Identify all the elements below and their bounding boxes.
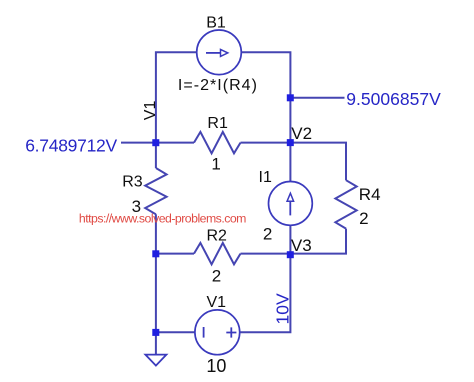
wire R1 right lead [241, 142, 291, 144]
wire left column lower [155, 214, 157, 354]
wire to right voltage annotation [290, 97, 344, 99]
node V1 junction square [152, 139, 159, 146]
wire to left voltage annotation [121, 142, 156, 144]
node R2-left junction square [152, 250, 159, 257]
svg-text:2: 2 [359, 209, 368, 228]
svg-text:I=-2*I(R4): I=-2*I(R4) [178, 77, 257, 94]
wire right column lower with V1 source right lead [240, 225, 291, 332]
svg-text:V2: V2 [291, 124, 312, 143]
svg-text:R3: R3 [122, 173, 143, 190]
dependent source B1 circle [197, 30, 242, 75]
resistor R4 [335, 180, 356, 228]
wire V1 source left lead [156, 331, 195, 333]
wire R2 right lead [241, 253, 291, 255]
svg-text:1: 1 [211, 155, 220, 174]
resistor R1 [194, 132, 241, 153]
node top-right junction square [287, 94, 294, 101]
ground [145, 355, 166, 366]
node V2 junction square [287, 139, 294, 146]
V1 minus sign [203, 327, 205, 338]
current source I1 circle [269, 182, 313, 226]
resistor R3 [145, 168, 166, 214]
wire V2 to R4 top [290, 143, 346, 181]
svg-text:I1: I1 [259, 169, 272, 186]
svg-text:2: 2 [212, 267, 221, 286]
B1 arrow [206, 52, 220, 54]
V1 plus sign [226, 327, 236, 337]
wire R1 left lead [156, 142, 194, 144]
voltage source V1 circle [195, 310, 240, 355]
wire top-right: B1 to right column down to I1 [241, 52, 290, 181]
svg-text:10V: 10V [272, 293, 292, 324]
svg-text:V1: V1 [142, 101, 159, 121]
svg-text:R1: R1 [207, 115, 228, 132]
svg-text:V3: V3 [291, 236, 312, 255]
node V3 junction square [287, 251, 294, 258]
svg-text:B1: B1 [206, 15, 226, 32]
svg-text:9.5006857V: 9.5006857V [346, 89, 441, 109]
I1 arrow [289, 201, 291, 215]
wire R2 left lead [156, 253, 194, 255]
resistor R2 [194, 243, 241, 264]
svg-text:10: 10 [206, 356, 226, 376]
svg-text:V1: V1 [207, 294, 227, 311]
wire top-left corner: V1 column up and over to B1 [156, 52, 197, 168]
wire R4 bottom to V3 [290, 229, 346, 254]
svg-text:R2: R2 [207, 228, 228, 245]
svg-text:2: 2 [263, 224, 272, 243]
svg-text:https://www.solved-problems.co: https://www.solved-problems.com [79, 212, 247, 226]
svg-text:R4: R4 [359, 185, 381, 204]
node bottom-left junction square [152, 329, 159, 336]
svg-text:6.7489712V: 6.7489712V [25, 135, 117, 155]
